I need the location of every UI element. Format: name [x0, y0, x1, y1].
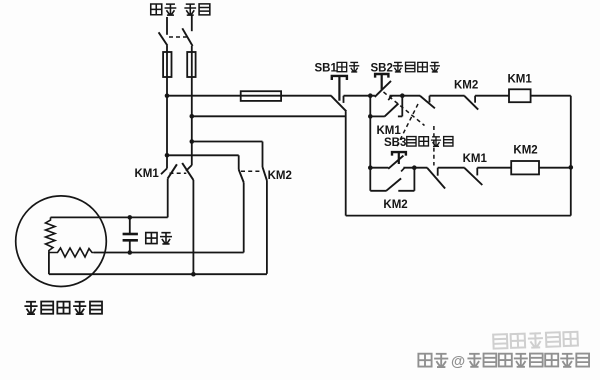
node capacitor top junction — [128, 215, 133, 220]
contact SB3-NC interlock blade — [420, 96, 435, 108]
node A-aux junction — [368, 114, 373, 119]
wire control right rail — [570, 96, 572, 216]
pushbutton SB3 actuator — [392, 152, 406, 156]
wire motor left drop — [48, 253, 50, 275]
wire coil KM2 to right rail — [539, 167, 571, 169]
wire L1 down to main contact — [166, 96, 168, 169]
node right-rail row2 junction — [569, 165, 574, 170]
contact KM1-NC tick — [476, 168, 478, 176]
wire rail after SB2-NC — [438, 167, 465, 169]
wire rail to coil KM2 — [477, 167, 511, 169]
wire L1 drop from label — [166, 17, 168, 35]
linkage SB2 to row2 dashed — [384, 92, 425, 126]
wire KM2-aux vertical — [413, 168, 415, 191]
wire branch to KM2 pole A — [167, 154, 239, 156]
svg-text:SB1: SB1 — [315, 63, 338, 75]
fuse FU3 — [241, 91, 281, 101]
label 火线 (live wire) — [151, 3, 177, 15]
watermark 头条 — [418, 353, 448, 367]
winding start (horizontal zigzag) — [49, 248, 94, 257]
node A-row2 junction — [368, 165, 373, 170]
switch QS pole 1 blade — [159, 32, 168, 45]
fuse FU1 — [163, 52, 171, 77]
wire control bottom rail — [346, 215, 571, 217]
fuse FU2 — [187, 52, 195, 77]
svg-text:KM1: KM1 — [508, 74, 533, 86]
contact KM2 pole A blade — [239, 170, 244, 183]
wire node B vertical — [401, 96, 403, 117]
node L1-control junction — [165, 93, 170, 98]
linkage SB3 to row1 dashed — [397, 104, 419, 147]
capacitor C top lead — [129, 217, 131, 233]
contact SB2-NC tick — [437, 168, 439, 176]
wire motor bottom line — [49, 273, 267, 275]
node B junction — [400, 93, 405, 98]
pushbutton SB1 NC tick — [343, 96, 345, 103]
watermark 电工知识学习平台 — [467, 353, 589, 367]
capacitor C plates — [123, 233, 138, 236]
pushbutton SB2 tick — [388, 96, 392, 100]
node L2-control junction — [190, 114, 195, 119]
wire node A vertical — [369, 96, 371, 191]
label 电容 — [146, 232, 172, 244]
pushbutton SB2 NO blade — [375, 81, 391, 97]
svg-text:SB3: SB3 — [384, 137, 406, 149]
wire L1 through fuse — [166, 46, 168, 96]
svg-text:KM2: KM2 — [454, 80, 478, 92]
contact KM2 linkage dashed — [241, 170, 260, 172]
contact KM1 pole A blade — [168, 164, 177, 178]
svg-text:KM1: KM1 — [377, 125, 402, 137]
svg-text:KM1: KM1 — [135, 168, 160, 180]
node A junction — [368, 93, 373, 98]
wire control feed — [167, 95, 332, 97]
contact KM1 pole B blade — [182, 163, 193, 180]
label 零线 (neutral wire) — [184, 3, 209, 15]
switch QS pole 2 blade — [182, 28, 192, 46]
wire row2 rail left — [370, 167, 388, 169]
svg-text:KM1: KM1 — [463, 153, 488, 165]
contact KM1 pole B tick — [186, 165, 192, 171]
wire KM1 pole B down — [192, 180, 194, 274]
wire coil KM1 to right rail — [531, 95, 571, 97]
contact KM1-aux wire right — [398, 115, 402, 117]
svg-text:SB2: SB2 — [371, 63, 393, 75]
node L1-KM2 branch junction — [165, 153, 170, 158]
wire rail to coil KM1 — [475, 95, 509, 97]
coil KM2 — [511, 161, 539, 174]
wire rail after SB2 — [390, 95, 421, 97]
switch QS linkage dashed — [169, 36, 187, 38]
contact KM1-NC interlock blade — [465, 168, 483, 185]
contact KM2-NC interlock blade — [464, 96, 478, 110]
contact KM2-aux wire right — [398, 190, 414, 192]
pushbutton SB3 tick — [401, 168, 404, 172]
contact KM1-aux NO blade — [385, 104, 399, 117]
wire L2 through fuse — [191, 46, 193, 165]
wire rail after SB3-NC — [430, 95, 465, 97]
wire KM1 pole A down — [167, 179, 169, 218]
node row2 aux junction — [412, 165, 417, 170]
node L2-KM2 branch junction — [190, 139, 195, 144]
svg-text:@: @ — [451, 354, 465, 370]
wire branch to KM2 pole B — [192, 141, 263, 143]
svg-text:KM2: KM2 — [268, 170, 292, 182]
wire motor top line — [51, 216, 168, 218]
wire winding to KM2 pole A — [94, 252, 244, 254]
node pole B bottom junction — [191, 272, 196, 277]
svg-text:KM2: KM2 — [383, 199, 407, 211]
contact KM2-NC tick — [474, 96, 476, 103]
contact KM2-aux NO blade — [386, 178, 401, 190]
contact SB3-NC tick — [429, 96, 431, 103]
wire rail after SB1 — [344, 95, 375, 97]
node capacitor bottom junction — [128, 250, 133, 255]
wire return vertical — [345, 111, 347, 215]
pushbutton SB2 actuator — [375, 74, 388, 78]
wire L2 return line — [192, 115, 346, 117]
pushbutton SB1 NC blade — [331, 96, 346, 111]
linkage vertical dashed — [433, 126, 435, 166]
wire KM2 pole A down — [243, 182, 245, 252]
contact KM1 linkage dashed — [170, 172, 187, 174]
winding main (vertical zigzag) — [46, 217, 56, 252]
watermark ghost — [493, 331, 578, 349]
label 单相电动机 — [24, 301, 102, 314]
svg-text:KM2: KM2 — [513, 145, 537, 157]
wire KM2 pole B down — [266, 181, 268, 274]
wire L2 drop from label — [191, 16, 193, 32]
contact KM2 pole B blade — [263, 167, 267, 181]
capacitor C bottom lead — [129, 240, 131, 252]
motor circle M — [16, 196, 107, 287]
contact KM1-aux wire left — [370, 115, 385, 117]
contact SB2-NC interlock blade — [427, 168, 445, 189]
coil KM1 — [509, 89, 531, 102]
contact KM2-aux wire left — [370, 190, 386, 192]
pushbutton SB1 actuator — [332, 76, 347, 80]
contact KM1 pole A tick — [161, 168, 167, 174]
pushbutton SB3 NO blade — [388, 156, 403, 169]
wire rail after SB3 — [403, 167, 427, 169]
